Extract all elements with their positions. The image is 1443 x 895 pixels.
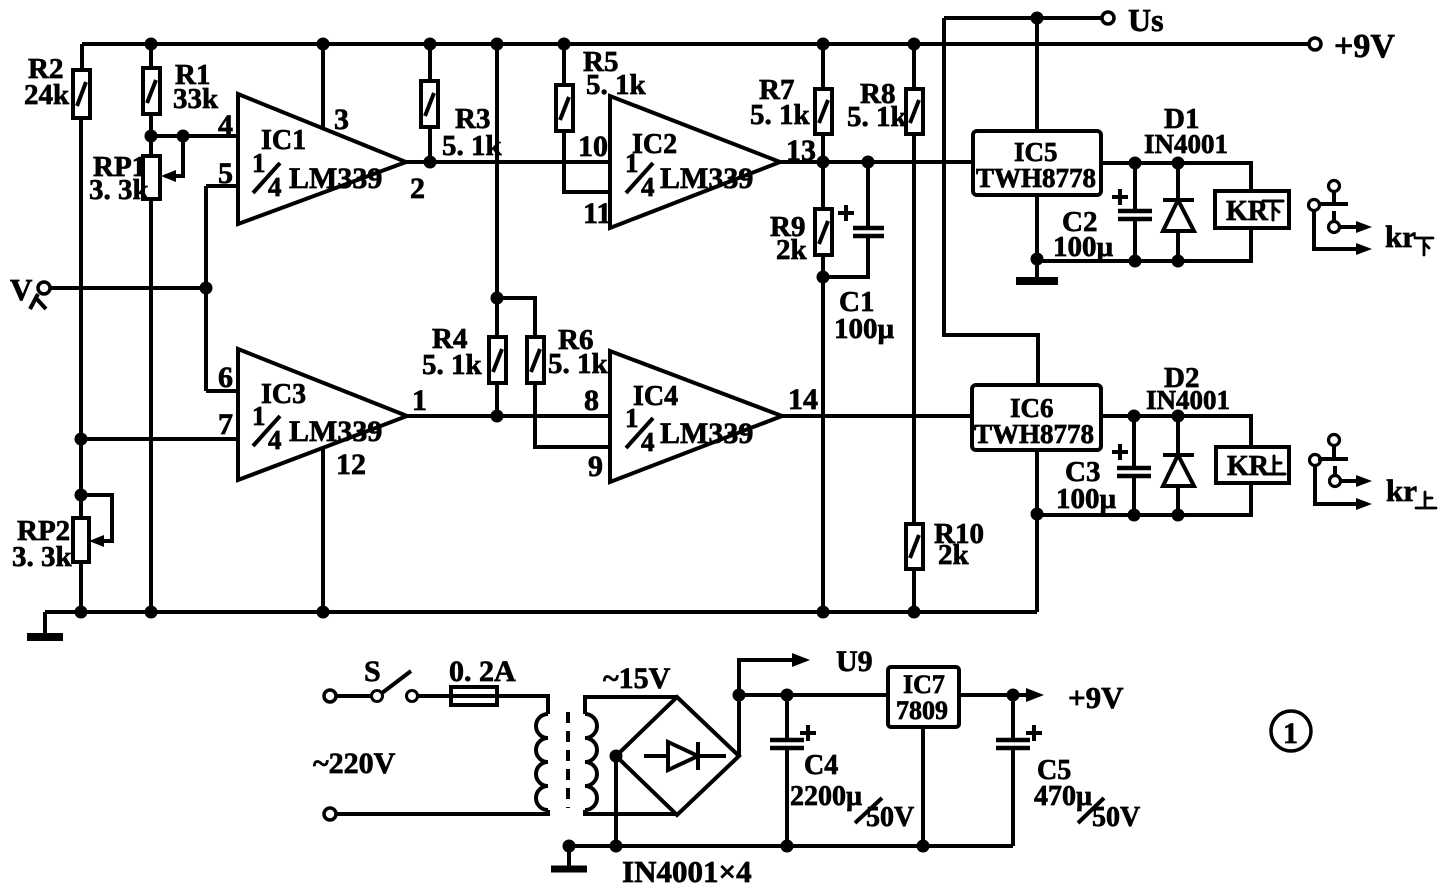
svg-text:IC4: IC4	[633, 381, 678, 412]
svg-text:TWH8778: TWH8778	[976, 163, 1096, 193]
svg-text:2k: 2k	[938, 539, 970, 571]
svg-text:IC7: IC7	[903, 670, 945, 699]
svg-text:C4: C4	[804, 750, 838, 781]
svg-text:~220V: ~220V	[313, 747, 396, 780]
svg-text:1: 1	[625, 403, 639, 433]
svg-text:5. 1k: 5. 1k	[586, 69, 647, 101]
svg-text:33k: 33k	[173, 83, 219, 115]
svg-text:5. 1k: 5. 1k	[442, 130, 503, 162]
svg-text:0. 2A: 0. 2A	[449, 655, 516, 688]
svg-text:14: 14	[788, 383, 818, 416]
svg-text:5. 1k: 5. 1k	[422, 349, 483, 381]
svg-text:100µ: 100µ	[1056, 483, 1117, 515]
svg-text:11: 11	[583, 197, 611, 230]
svg-text:5. 1k: 5. 1k	[548, 348, 609, 380]
svg-text:100µ: 100µ	[1053, 231, 1114, 263]
svg-text:LM339: LM339	[289, 162, 382, 195]
svg-text:U9: U9	[836, 645, 873, 678]
svg-text:+9V: +9V	[1068, 680, 1124, 715]
svg-text:5: 5	[218, 157, 233, 190]
svg-text:4: 4	[268, 172, 282, 202]
svg-text:S: S	[364, 655, 381, 688]
svg-text:kr: kr	[1385, 219, 1416, 254]
svg-text:2k: 2k	[776, 234, 808, 266]
svg-text:2: 2	[410, 172, 425, 205]
svg-text:1: 1	[252, 401, 266, 431]
svg-text:1: 1	[1283, 717, 1298, 750]
svg-text:IC1: IC1	[261, 125, 306, 156]
svg-text:IN4001×4: IN4001×4	[622, 854, 752, 889]
svg-text:3. 3k: 3. 3k	[89, 174, 150, 206]
svg-text:100µ: 100µ	[834, 313, 895, 345]
svg-text:9: 9	[588, 450, 603, 483]
svg-text:LM339: LM339	[289, 415, 382, 448]
svg-text:KR: KR	[1227, 451, 1270, 482]
svg-text:IN4001: IN4001	[1146, 385, 1230, 415]
svg-text:4: 4	[218, 109, 233, 142]
svg-text:TWH8778: TWH8778	[974, 419, 1094, 449]
svg-text:24k: 24k	[24, 79, 70, 111]
svg-text:3. 3k: 3. 3k	[12, 541, 73, 573]
svg-text:1: 1	[412, 384, 427, 417]
svg-text:1: 1	[252, 148, 266, 178]
svg-text:~15V: ~15V	[603, 662, 671, 695]
svg-text:5. 1k: 5. 1k	[847, 101, 908, 133]
svg-text:1: 1	[625, 148, 639, 178]
svg-text:3: 3	[334, 103, 349, 136]
svg-text:LM339: LM339	[660, 162, 753, 195]
svg-text:+9V: +9V	[1334, 28, 1395, 65]
svg-text:470µ: 470µ	[1034, 781, 1092, 812]
svg-text:50V: 50V	[866, 802, 914, 833]
svg-text:50V: 50V	[1092, 802, 1140, 833]
svg-text:IN4001: IN4001	[1144, 129, 1228, 159]
svg-text:12: 12	[336, 448, 366, 481]
svg-text:V: V	[10, 272, 33, 307]
svg-text:4: 4	[641, 172, 655, 202]
svg-text:IC3: IC3	[261, 379, 306, 410]
svg-text:2200µ: 2200µ	[790, 781, 862, 812]
svg-text:4: 4	[641, 427, 655, 457]
svg-text:Us: Us	[1128, 2, 1164, 38]
svg-text:kr: kr	[1386, 473, 1417, 508]
svg-text:4: 4	[268, 425, 282, 455]
svg-text:LM339: LM339	[660, 417, 753, 450]
svg-text:7809: 7809	[896, 696, 948, 725]
svg-text:10: 10	[578, 130, 608, 163]
svg-text:IC2: IC2	[632, 129, 677, 160]
svg-text:6: 6	[218, 361, 233, 394]
svg-text:5. 1k: 5. 1k	[750, 99, 811, 131]
svg-text:7: 7	[218, 408, 233, 441]
svg-text:8: 8	[584, 384, 599, 417]
